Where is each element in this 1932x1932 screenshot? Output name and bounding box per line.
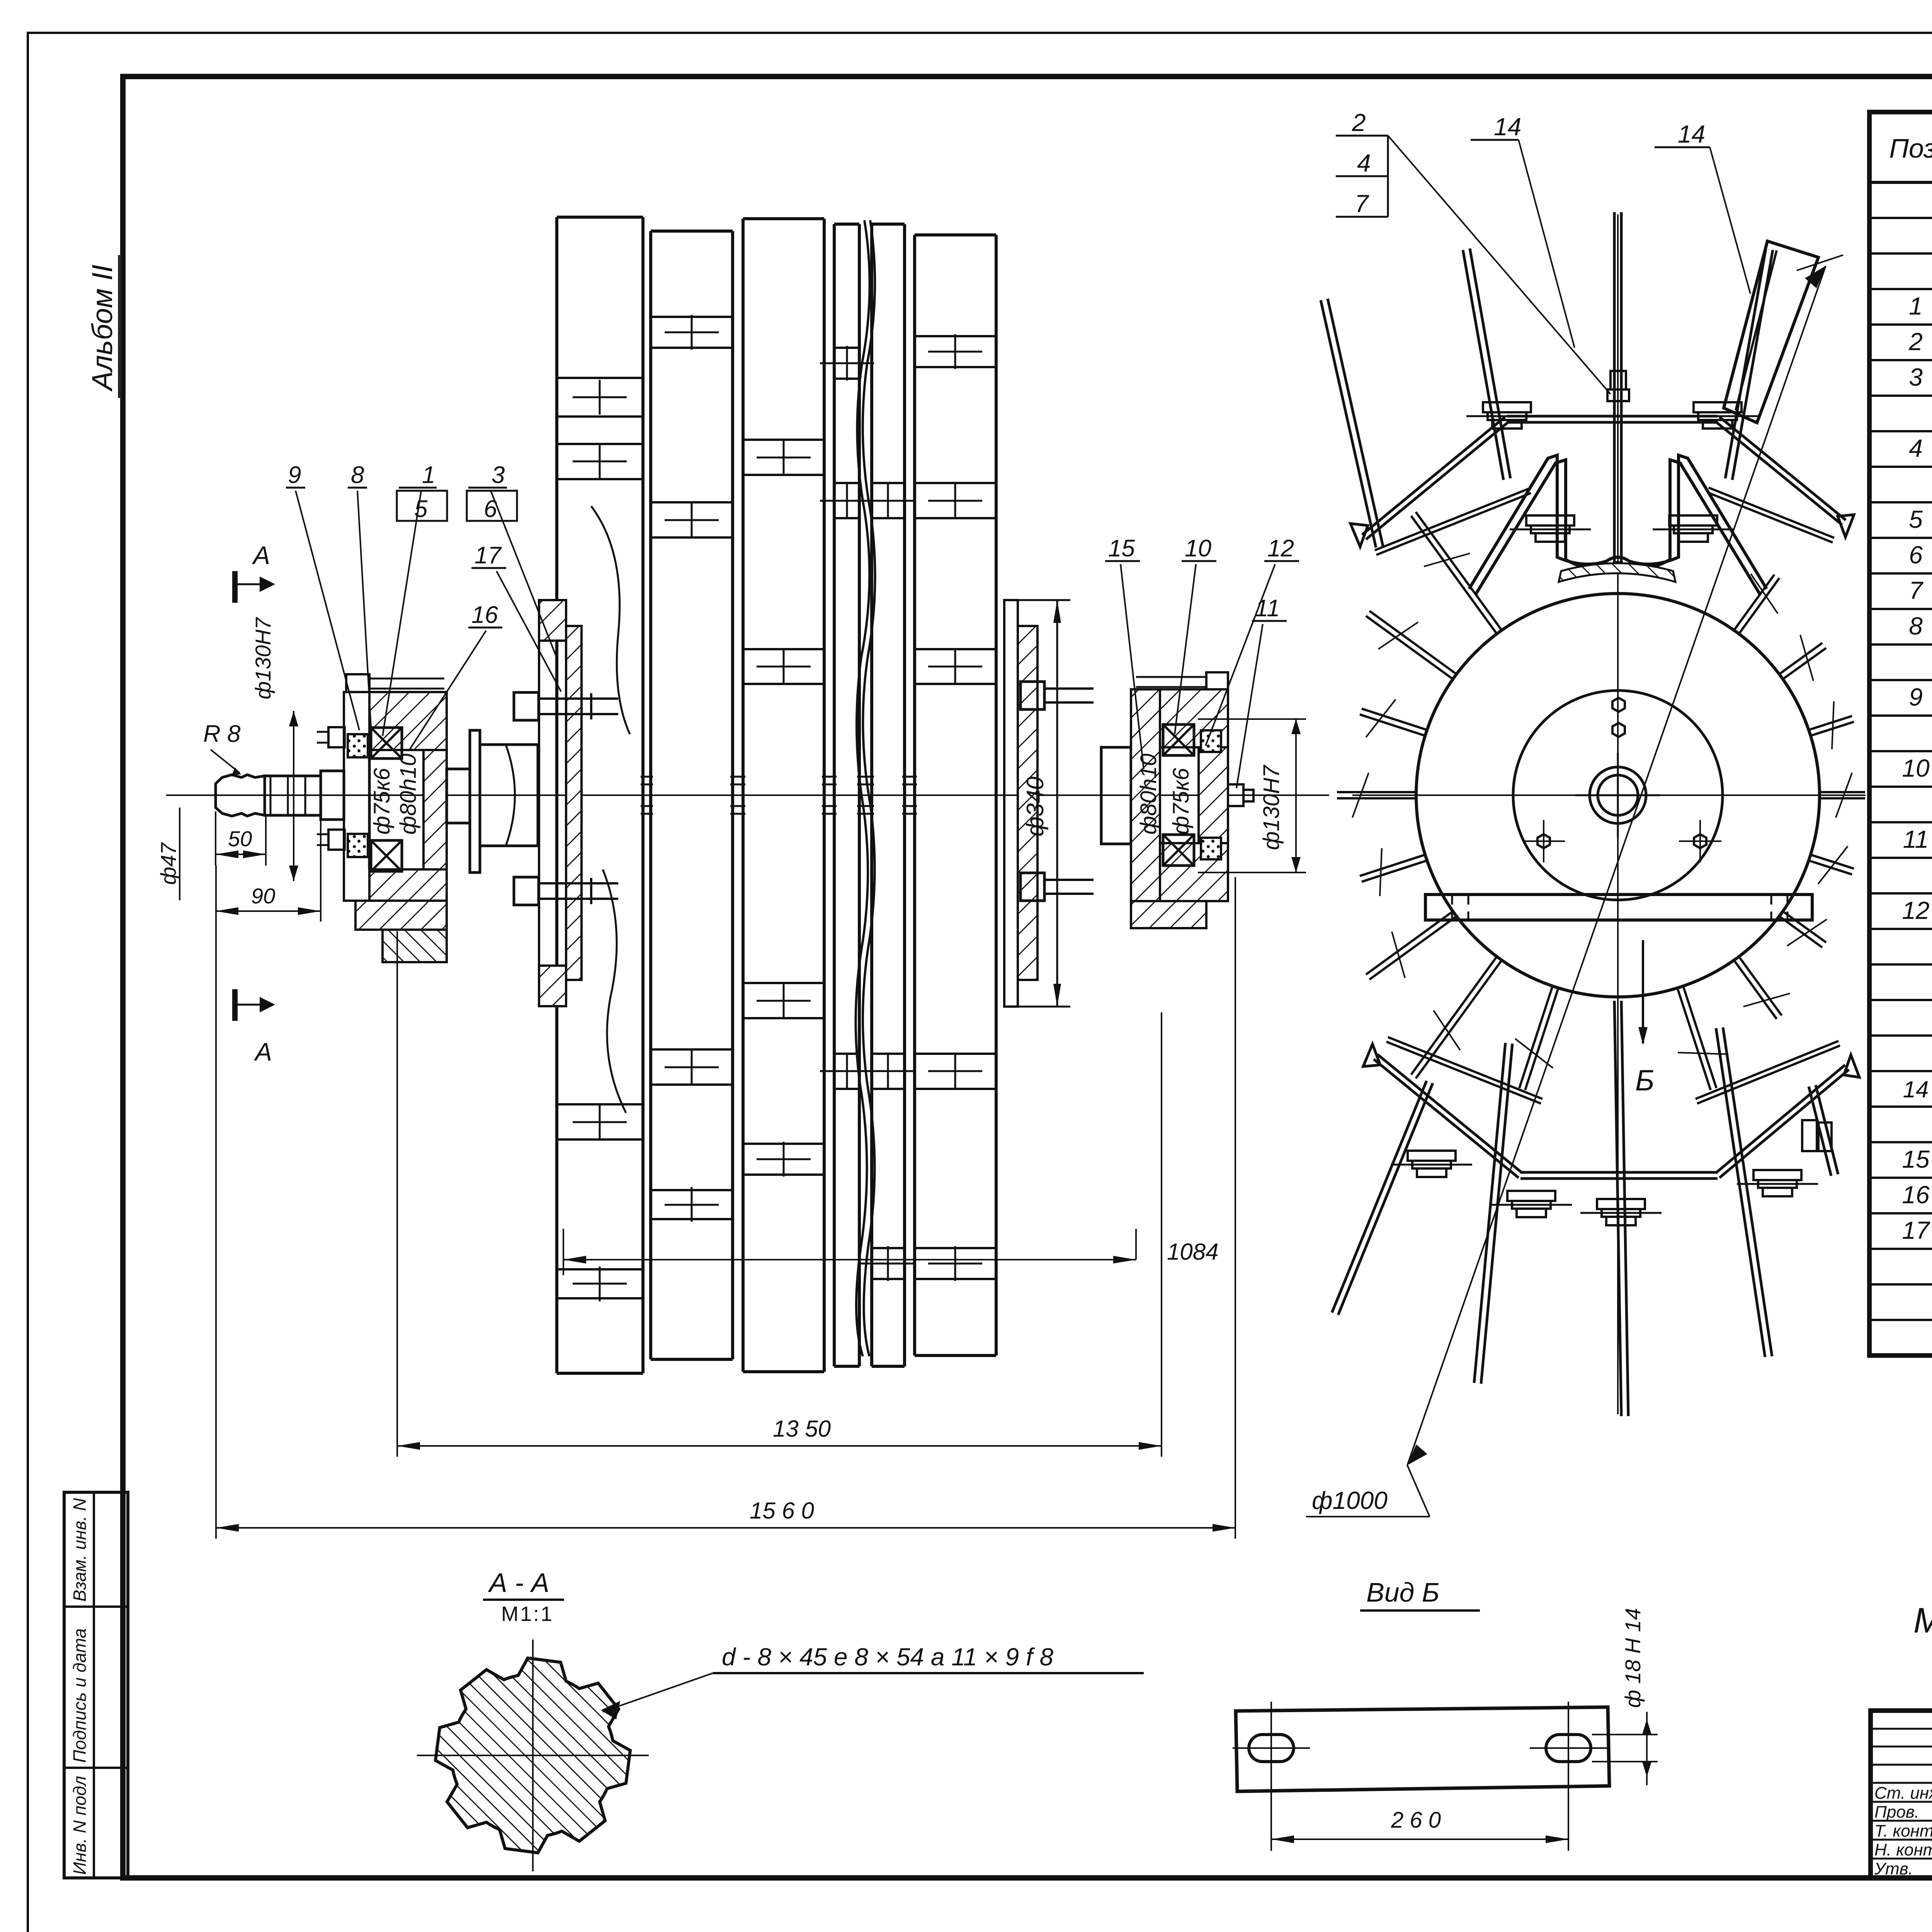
disc column 1 bbox=[555, 217, 558, 1373]
svg-text:16: 16 bbox=[1902, 1181, 1930, 1209]
svg-text:10: 10 bbox=[1185, 535, 1211, 562]
svg-text:5: 5 bbox=[1909, 505, 1923, 533]
svg-text:ф80h10: ф80h10 bbox=[1136, 753, 1161, 835]
svg-text:Т. контр.: Т. контр. bbox=[1874, 1821, 1932, 1840]
spoke -144° bbox=[1416, 961, 1501, 1078]
svg-text:15: 15 bbox=[1108, 535, 1135, 562]
svg-text:М1:1: М1:1 bbox=[501, 1602, 554, 1626]
spoke 162° bbox=[1684, 987, 1716, 1088]
svg-text:8: 8 bbox=[351, 462, 364, 488]
dim 1350 bbox=[396, 931, 398, 1457]
title block frame bbox=[1871, 1711, 1932, 1878]
spoke -162° bbox=[1525, 989, 1558, 1090]
svg-text:14: 14 bbox=[1678, 120, 1705, 148]
disc column 2 bbox=[649, 231, 652, 1359]
fan blade bbox=[1481, 1044, 1512, 1384]
top cap bolt left unit bbox=[346, 674, 369, 692]
Б arrow label bbox=[1642, 940, 1644, 1043]
svg-text:2 6 0: 2 6 0 bbox=[1391, 1808, 1441, 1833]
svg-text:А - А: А - А bbox=[488, 1568, 549, 1598]
svg-text:8: 8 bbox=[1909, 612, 1923, 640]
spoke 108° bbox=[1812, 855, 1854, 869]
disc column 3 bbox=[742, 219, 745, 1372]
svg-text:ф130Н7: ф130Н7 bbox=[1259, 764, 1284, 850]
svg-text:d - 8 × 45 e 8 × 54 a 11 × 9 f: d - 8 × 45 e 8 × 54 a 11 × 9 f 8 bbox=[722, 1643, 1054, 1671]
right housing foot bbox=[1131, 901, 1206, 928]
top rim inner chords bbox=[1375, 488, 1529, 550]
svg-text:3: 3 bbox=[492, 462, 505, 488]
right bearing housing bbox=[1131, 689, 1160, 901]
spoke -90° bbox=[1337, 797, 1415, 799]
section mark A (bottom) bbox=[232, 989, 238, 1021]
fan blade bbox=[1621, 1001, 1628, 1416]
svg-text:16: 16 bbox=[471, 602, 498, 628]
svg-text:R 8: R 8 bbox=[203, 721, 241, 747]
svg-text:2: 2 bbox=[1352, 109, 1366, 136]
svg-text:ф130Н7: ф130Н7 bbox=[251, 617, 275, 699]
curved surface lines on hub bbox=[506, 746, 515, 845]
spoke -36° bbox=[1411, 516, 1496, 633]
parts table frame bbox=[1869, 112, 1932, 1355]
svg-text:4: 4 bbox=[1909, 434, 1923, 462]
disc column 4 bbox=[833, 224, 836, 1366]
dim 1560 bbox=[215, 866, 217, 1539]
svg-text:50: 50 bbox=[228, 827, 252, 851]
right flange bolts bbox=[1020, 682, 1044, 709]
svg-text:ф 18 Н 14: ф 18 Н 14 bbox=[1621, 1608, 1645, 1708]
main axis centerline bbox=[166, 794, 1329, 796]
ф340 dimension bbox=[1004, 599, 1070, 601]
top fan bolt groups bbox=[1483, 402, 1531, 412]
svg-text:9: 9 bbox=[288, 462, 301, 488]
top cap bolt right unit bbox=[1206, 672, 1228, 689]
right seals dotted bbox=[1201, 730, 1221, 752]
shaft step and hub bbox=[447, 769, 470, 823]
dim 1084 bbox=[563, 1229, 564, 1275]
svg-text:Н. контр.: Н. контр. bbox=[1874, 1840, 1932, 1859]
grease fitting (pos 11) bbox=[1228, 784, 1243, 806]
spoke 54° bbox=[1780, 643, 1822, 673]
disc bolts below bbox=[1537, 834, 1550, 848]
svg-text:ф75к6: ф75к6 bbox=[1168, 768, 1194, 835]
svg-text:ф80h10: ф80h10 bbox=[396, 753, 421, 835]
svg-text:15 6 0: 15 6 0 bbox=[750, 1498, 814, 1524]
wide flat blade (face-on, top right) bbox=[1724, 241, 1818, 423]
right bearing crossed boxes bbox=[1163, 724, 1194, 755]
hub circles bbox=[1590, 767, 1646, 823]
svg-text:11: 11 bbox=[1903, 825, 1929, 853]
svg-text:14: 14 bbox=[1903, 1077, 1929, 1102]
splined shaft section (hatched) bbox=[435, 1658, 630, 1853]
spoke 36° bbox=[1735, 575, 1774, 629]
ф1000 diameter line bbox=[1407, 266, 1826, 1465]
svg-text:Вид Б: Вид Б bbox=[1366, 1577, 1439, 1607]
svg-text:12: 12 bbox=[1902, 896, 1929, 924]
svg-text:1: 1 bbox=[1909, 292, 1923, 320]
svg-text:Альбом II: Альбом II bbox=[86, 265, 118, 392]
svg-text:6: 6 bbox=[1909, 541, 1923, 569]
fan blade bbox=[1613, 212, 1616, 568]
svg-text:17: 17 bbox=[474, 542, 502, 569]
left hub flange (pos 3/17) bbox=[539, 600, 566, 641]
svg-text:10: 10 bbox=[1902, 754, 1930, 782]
svg-text:1084: 1084 bbox=[1167, 1239, 1218, 1265]
svg-text:7: 7 bbox=[1909, 577, 1923, 604]
disc column 5 bbox=[870, 224, 873, 1366]
section mark A (top) bbox=[232, 571, 238, 603]
break (wavy) lines bbox=[855, 220, 869, 1356]
U-profile of bent sheet bbox=[1469, 455, 1767, 589]
wheel disc bbox=[1416, 594, 1820, 997]
svg-text:ф340: ф340 bbox=[1022, 777, 1049, 837]
leader lines to parts bbox=[296, 491, 359, 730]
svg-text:Утв.: Утв. bbox=[1874, 1859, 1913, 1878]
svg-text:Подпись и дата: Подпись и дата bbox=[70, 1628, 90, 1763]
svg-text:А: А bbox=[253, 1037, 272, 1066]
svg-text:Поз: Поз bbox=[1889, 133, 1932, 163]
disc column 6 bbox=[913, 235, 916, 1355]
svg-text:3: 3 bbox=[1909, 363, 1923, 391]
svg-text:15: 15 bbox=[1902, 1145, 1930, 1173]
svg-text:Взам. инв. N: Взам. инв. N bbox=[70, 1498, 90, 1602]
fan blade bbox=[1816, 1085, 1838, 1174]
spoke -72° bbox=[1360, 714, 1424, 735]
svg-text:ф1000: ф1000 bbox=[1312, 1486, 1388, 1514]
left beak bbox=[1350, 524, 1368, 547]
spoke 90° bbox=[1821, 791, 1865, 793]
bottom rim chords bbox=[1388, 1037, 1543, 1099]
right hub flange (ф340) bbox=[1004, 600, 1018, 1007]
bottom fan rim bbox=[1520, 1171, 1718, 1174]
svg-text:90: 90 bbox=[251, 884, 275, 908]
svg-text:Инв. N подл: Инв. N подл bbox=[70, 1776, 90, 1875]
spoke 126° bbox=[1784, 912, 1826, 942]
spoke 72° bbox=[1810, 716, 1852, 730]
bearing (pos 12) crossed boxes bbox=[371, 728, 402, 759]
spoke -54° bbox=[1366, 616, 1452, 679]
svg-text:ф75к6: ф75к6 bbox=[369, 768, 395, 835]
dim 90 bbox=[320, 819, 321, 922]
svg-text:9: 9 bbox=[1909, 683, 1923, 711]
margin stamp strip (bottom left) bbox=[64, 1492, 128, 1878]
right shaft step bbox=[1101, 747, 1131, 844]
shaft lines through stack gaps bbox=[641, 776, 653, 778]
fan blade bbox=[1725, 248, 1766, 478]
left bearing housing (pos 16) bbox=[344, 692, 369, 901]
fan blade bbox=[1321, 300, 1376, 548]
svg-text:7: 7 bbox=[1355, 190, 1369, 218]
spoke -108° bbox=[1362, 861, 1426, 882]
top fan rim bbox=[1507, 415, 1718, 418]
svg-text:12: 12 bbox=[1267, 535, 1294, 562]
section crosshairs bbox=[417, 1755, 649, 1756]
svg-text:Масса: Масса bbox=[1913, 1601, 1932, 1640]
dim 260 bbox=[1271, 1838, 1568, 1840]
svg-text:13 50: 13 50 bbox=[773, 1416, 831, 1442]
housing foot bbox=[355, 901, 447, 930]
svg-text:Пров.: Пров. bbox=[1874, 1803, 1919, 1821]
spoke -126° bbox=[1369, 917, 1456, 980]
left flange bolts M16 bbox=[514, 692, 539, 720]
wheel centerlines bbox=[1352, 794, 1866, 796]
plate holes (oval) bbox=[1249, 1735, 1294, 1762]
svg-text:14: 14 bbox=[1494, 113, 1521, 141]
svg-text:Ст. инж.: Ст. инж. bbox=[1874, 1784, 1932, 1803]
dim 50 bbox=[215, 811, 216, 866]
fan blade bbox=[1463, 250, 1503, 480]
svg-text:4: 4 bbox=[1357, 149, 1371, 177]
plate (pos 17 view) bbox=[1236, 1707, 1609, 1791]
fan blade bbox=[1338, 1083, 1433, 1315]
svg-text:Б: Б bbox=[1635, 1064, 1654, 1097]
svg-text:1: 1 bbox=[422, 462, 435, 488]
spoke 144° bbox=[1740, 957, 1782, 1015]
seals (pos 9) dotted blocks bbox=[348, 734, 368, 757]
hatched arc segment on disc top bbox=[1559, 563, 1675, 582]
disc segment joints bbox=[557, 377, 643, 379]
fan blade bbox=[1723, 1027, 1772, 1356]
curved break around flange bbox=[591, 506, 630, 734]
wheel inner circle bbox=[1513, 690, 1723, 900]
shaft section between spline and bearing bbox=[321, 771, 344, 820]
svg-text:А: А bbox=[252, 541, 270, 570]
hub bolts (two above center) bbox=[1612, 698, 1625, 712]
table row lines bbox=[1869, 217, 1932, 219]
small cap bolts bbox=[328, 727, 345, 747]
svg-text:2: 2 bbox=[1908, 328, 1923, 355]
clamp bar across disc bbox=[1425, 895, 1812, 920]
svg-text:ф47: ф47 bbox=[156, 842, 180, 885]
shaft spline end bbox=[216, 775, 265, 816]
svg-text:17: 17 bbox=[1902, 1216, 1930, 1244]
svg-text:6: 6 bbox=[484, 496, 497, 522]
top center stud nut bbox=[1607, 389, 1629, 401]
bottom bolt groups bbox=[1408, 1151, 1456, 1161]
